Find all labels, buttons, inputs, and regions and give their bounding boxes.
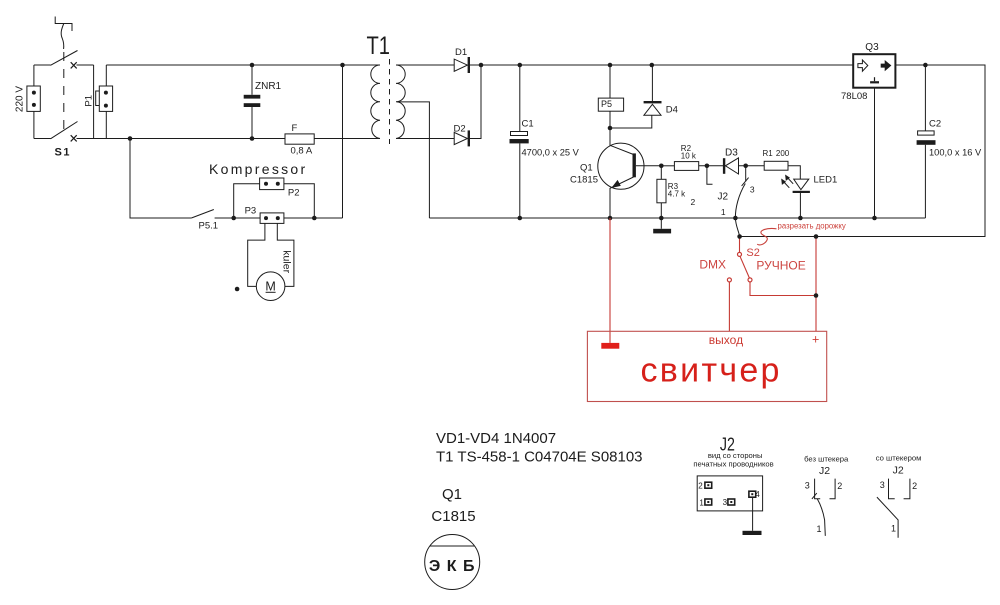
capacitor C2 leads: [924, 65, 926, 218]
svg-text:J2: J2: [819, 465, 830, 477]
dot C2 top: [923, 63, 928, 68]
red wire plus vertical: [815, 237, 817, 332]
S2 contact circle top: [738, 252, 742, 256]
diode D4 triangle: [644, 104, 661, 115]
junction dot ZNR1 top: [250, 63, 255, 68]
Q3 hollow arrow: [858, 60, 868, 71]
svg-text:VD1-VD4 1N4007: VD1-VD4 1N4007: [436, 430, 556, 447]
resistor R1 box: [764, 161, 788, 170]
svg-text:1: 1: [891, 524, 896, 534]
svg-text:P1: P1: [84, 95, 95, 107]
S2 contact circle DMX: [727, 278, 731, 282]
svg-text:3: 3: [880, 480, 885, 490]
wire S1 lower left: [34, 138, 51, 140]
wire S1 upper right: [77, 64, 94, 66]
P1 box: [99, 86, 112, 111]
svg-text:3: 3: [723, 498, 728, 507]
svg-text:2: 2: [837, 481, 842, 491]
svg-text:100,0 x 16 V: 100,0 x 16 V: [929, 148, 982, 158]
svg-text:M: M: [265, 280, 275, 294]
wire secondary top to D1: [396, 64, 454, 66]
dot D4 top: [650, 63, 655, 68]
dot P5 top: [608, 63, 613, 68]
P1 leads: [105, 65, 107, 139]
left diag open arm: [817, 499, 825, 536]
wire R2 to D3: [699, 165, 723, 167]
svg-text:РУЧНОЕ: РУЧНОЕ: [756, 259, 805, 273]
X mark upper: [71, 62, 77, 68]
LED1 lead: [799, 193, 801, 218]
wire D3 to R1: [739, 165, 765, 167]
J2 pad 1: [705, 499, 712, 505]
top rail left: [106, 64, 380, 66]
wire D1 cathode to rail: [470, 64, 853, 66]
svg-text:со штекером: со штекером: [876, 454, 922, 463]
connector P5 leads: [610, 65, 652, 128]
svg-text:0,8 A: 0,8 A: [291, 146, 313, 157]
S2 contact circle manual: [748, 278, 752, 282]
resistor R3 leads: [660, 166, 662, 229]
wire R1 to LED1: [788, 166, 800, 179]
J2 board box: [697, 476, 762, 511]
wire P2 left loop: [234, 184, 260, 218]
ground bar R3: [653, 229, 671, 234]
transistor Q1 collector: [610, 128, 634, 155]
svg-text:1: 1: [817, 524, 822, 534]
dot J2 arm rail: [733, 216, 738, 221]
svg-text:ZNR1: ZNR1: [255, 81, 282, 92]
svg-text:печатных проводников: печатных проводников: [693, 459, 773, 468]
Q3 solid arrow: [881, 60, 892, 71]
svg-text:1: 1: [721, 207, 726, 217]
svg-text:P3: P3: [245, 205, 257, 216]
connector 220V box: [27, 86, 40, 111]
switch P5.1 arm: [191, 210, 213, 219]
right diag bracket 2: [904, 479, 910, 499]
svg-text:D1: D1: [455, 47, 467, 58]
connector P2 box: [260, 178, 284, 190]
svg-text:D3: D3: [725, 148, 738, 159]
dot C1 bottom rail: [518, 216, 523, 221]
dot manual wire: [814, 293, 819, 298]
transistor Q1 emitter: [610, 177, 634, 218]
wire P2 right loop: [284, 184, 314, 218]
svg-text:C2: C2: [929, 119, 941, 130]
transformer T1 core: [389, 59, 391, 144]
svg-text:2: 2: [698, 482, 703, 491]
svg-text:разрезать дорожку: разрезать дорожку: [778, 221, 846, 230]
transistor Q1 circle: [598, 143, 644, 189]
connector P3 box: [260, 213, 284, 224]
svg-text:4700,0 x 25 V: 4700,0 x 25 V: [522, 148, 580, 158]
junction dot ZNR1 bottom: [250, 136, 255, 141]
svg-text:+: +: [812, 333, 819, 347]
svg-text:200: 200: [776, 149, 790, 158]
J2 arm tick: [742, 178, 749, 186]
svg-text:свитчер: свитчер: [641, 352, 782, 390]
fuse F box: [285, 134, 314, 144]
wire base to R2: [661, 165, 674, 167]
floating dot left of motor: [235, 287, 240, 292]
svg-text:S2: S2: [746, 247, 759, 259]
transistor pinout circle: [425, 535, 480, 590]
svg-text:220 V: 220 V: [15, 86, 26, 112]
transistor Q1 base wire: [636, 165, 661, 167]
wire branch down to P5.1: [130, 139, 191, 219]
left diag tick: [812, 493, 817, 499]
wire Q3 to corner: [740, 65, 985, 237]
connector P5 box: [598, 98, 623, 111]
resistor R3 box: [657, 179, 666, 203]
wire P3 right to branch: [284, 217, 343, 219]
diode D3 triangle: [725, 158, 738, 174]
capacitor C2 top plate: [918, 131, 935, 135]
right diag bracket 3: [889, 479, 895, 499]
svg-text:2: 2: [912, 481, 917, 491]
svg-text:D4: D4: [666, 105, 678, 116]
svg-text:F: F: [292, 123, 298, 134]
J2 ground bar: [743, 531, 762, 535]
ZNR1 leads: [251, 65, 253, 139]
left diag bracket 3: [815, 479, 821, 499]
dot red line left: [737, 234, 742, 239]
J2 pad 3: [728, 499, 735, 505]
capacitor C2 bottom plate: [917, 140, 936, 145]
regulator Q3 box: [853, 54, 895, 87]
svg-text:3: 3: [805, 481, 810, 491]
dot Q3 gnd rail: [872, 216, 877, 221]
LED1 triangle: [794, 179, 809, 190]
mains plug icon: [55, 17, 72, 32]
dot red line plus: [814, 234, 819, 239]
svg-text:S1: S1: [55, 147, 71, 159]
svg-text:C1815: C1815: [570, 175, 598, 186]
LED1 bar: [793, 191, 810, 193]
wire secondary center tap: [397, 102, 429, 218]
switcher red box: [587, 331, 826, 401]
connector 220V leads: [33, 65, 35, 139]
wire D2 cathode up to junction: [470, 65, 481, 139]
LED1 arrows: [784, 178, 793, 188]
svg-text:P2: P2: [288, 188, 300, 199]
dot P5 bottom: [608, 126, 613, 131]
svg-text:P5.1: P5.1: [199, 220, 219, 231]
svg-text:Kompressor: Kompressor: [209, 161, 307, 177]
svg-text:R1: R1: [763, 149, 774, 158]
diode D3 bar: [723, 158, 725, 174]
red wire DMX down: [728, 282, 730, 331]
capacitor C1 leads: [519, 65, 521, 218]
J2 pad 2: [705, 482, 712, 488]
svg-text:C1: C1: [522, 119, 534, 130]
resistor R2 box: [674, 162, 698, 171]
P1 pins: [104, 91, 108, 95]
svg-text:kuler: kuler: [281, 250, 293, 273]
dot C1 top: [518, 63, 523, 68]
dot D3 right junction: [743, 164, 748, 169]
dot R3 rail: [659, 216, 664, 221]
red wire minus from emitter: [609, 218, 611, 343]
S1 upper arm: [51, 51, 78, 66]
capacitor C1 top plate: [511, 132, 528, 136]
J2 pin3 stub: [745, 166, 747, 182]
J2 pin2 stub: [707, 166, 713, 184]
J2 pad 4: [749, 491, 756, 497]
red wire S2 top: [739, 237, 741, 253]
svg-text:3: 3: [750, 184, 755, 194]
svg-text:2: 2: [691, 197, 696, 207]
svg-text:4.7 k: 4.7 k: [668, 189, 686, 198]
switch S2 arm: [740, 256, 749, 278]
svg-text:10 k: 10 k: [681, 151, 697, 160]
J2 pad4 ground lead: [752, 498, 754, 531]
capacitor C1 bottom plate: [510, 139, 529, 143]
svg-text:LED1: LED1: [814, 174, 838, 185]
J2 arm curve: [735, 184, 745, 237]
transformer T1 primary winding: [371, 65, 380, 139]
svg-text:DMX: DMX: [699, 257, 726, 271]
svg-text:P5: P5: [601, 99, 612, 109]
junction dot kompressor branch: [128, 136, 133, 141]
dot D3 left junction: [705, 164, 710, 169]
dot P5.1 branch: [231, 216, 236, 221]
svg-text:Э К Б: Э К Б: [429, 558, 476, 575]
diode D4 lead: [651, 65, 653, 101]
dot P2 right branch: [312, 216, 317, 221]
svg-text:4: 4: [755, 490, 760, 499]
svg-text:J2: J2: [718, 191, 729, 202]
dot base junction: [659, 164, 664, 169]
pinout chord: [430, 545, 475, 547]
red wire S2 right down: [750, 282, 816, 296]
diode D4 bar: [644, 101, 662, 103]
svg-text:T1 TS-458-1 C04704E S08103: T1 TS-458-1 C04704E S08103: [436, 448, 643, 465]
ZNR1 plates: [244, 95, 261, 99]
svg-text:T1: T1: [367, 32, 391, 60]
wire vertical branch to kompressor row: [342, 65, 344, 218]
svg-text:выход: выход: [709, 333, 743, 347]
junction dot vertical branch top: [340, 63, 345, 68]
junction dot D2 join: [479, 63, 484, 68]
minus terminal bar: [601, 343, 619, 349]
diode D2 triangle: [454, 132, 467, 144]
P1 plug bracket: [96, 91, 100, 106]
svg-text:Q3: Q3: [865, 42, 879, 53]
right diag closed arm: [877, 497, 898, 538]
wire S1 upper left: [34, 64, 51, 66]
wire P5.1 to P3: [215, 217, 261, 219]
diode D1 bar: [468, 57, 470, 73]
svg-text:Q1: Q1: [580, 163, 593, 174]
svg-text:C1815: C1815: [431, 508, 475, 525]
Q3 ground tab: [874, 77, 876, 81]
switch lever curve: [61, 24, 64, 50]
red cut squiggle: [757, 229, 776, 245]
S1 lower arm: [51, 122, 78, 139]
left diag bracket 2: [830, 479, 836, 499]
motor M circle: [256, 272, 285, 301]
S1 dashed linkage: [63, 52, 65, 130]
diode D2 bar: [468, 130, 470, 146]
dot emitter rail: [608, 216, 613, 221]
P2 pins: [264, 182, 268, 186]
wire secondary bottom to D2: [396, 138, 454, 140]
transistor Q1 bar: [633, 153, 636, 177]
svg-text:Q1: Q1: [442, 486, 462, 503]
wire bottom rail primary: [77, 138, 381, 140]
wire vertical plug side: [93, 65, 95, 139]
P3 pins: [264, 216, 268, 220]
X mark lower: [71, 135, 77, 141]
svg-text:J2: J2: [893, 465, 904, 477]
transformer T1 secondary winding: [396, 65, 405, 139]
svg-text:D2: D2: [454, 124, 466, 135]
svg-text:78L08: 78L08: [841, 91, 867, 102]
Q3 ground lead: [874, 88, 876, 218]
wire bottom DC rail: [429, 217, 925, 219]
transistor Q1 emitter arrow: [611, 180, 621, 188]
svg-text:без штекера: без штекера: [804, 454, 849, 463]
P3 pin leads to kuler: [248, 223, 294, 286]
220V pins: [32, 91, 36, 95]
dot LED rail: [798, 216, 803, 221]
svg-text:1: 1: [699, 498, 704, 507]
diode D1 triangle: [454, 59, 467, 71]
